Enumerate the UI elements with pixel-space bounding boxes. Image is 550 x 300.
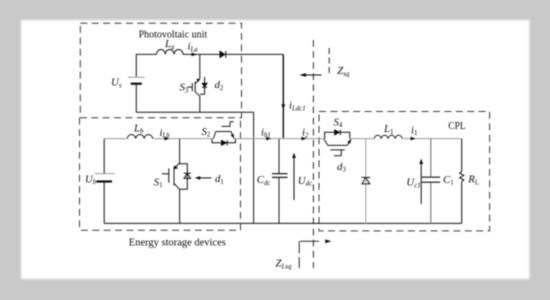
wire: output node branch [430, 139, 432, 224]
svg-text:Photovoltaic unit: Photovoltaic unit [139, 30, 208, 41]
current arrow iLb [160, 127, 171, 141]
diode d2 (antiparallel of S3) [200, 77, 207, 94]
current arrow ib1 [261, 126, 271, 140]
wire: PV negative drop to ground rail [253, 112, 255, 223]
Zsq dashed measurement line [312, 40, 314, 268]
voltage arrow Uc1 [406, 159, 423, 204]
ZLsq bracket [299, 241, 319, 268]
Zsq bracket [328, 48, 330, 75]
Zsq arrow [299, 73, 321, 77]
inductor La [157, 49, 184, 54]
S3 collector arrowhead [196, 79, 200, 83]
current arrow i1 [410, 124, 417, 140]
wire: Ub leads [103, 139, 105, 224]
transistor S3 (IGBT) [187, 54, 199, 112]
inductor L1 [374, 135, 402, 138]
voltage arrow Udc [292, 153, 312, 200]
diode d3 freewheel [362, 177, 371, 184]
wire: PV bottom rail [136, 111, 253, 113]
capacitor C1 [422, 177, 440, 182]
transistor S4 (IGBT horizontal, gate down) [324, 139, 352, 156]
diode of S2 [212, 139, 235, 146]
photovoltaic unit dashed box [80, 23, 241, 118]
wire: iLdc1 drop [282, 54, 284, 138]
S2 emitter arrowhead [231, 134, 234, 138]
wire: Us bottom lead [135, 84, 137, 113]
battery Us [128, 77, 145, 83]
d1 pointer arrow [195, 176, 212, 180]
current arrow i2 [301, 127, 309, 141]
ZLsq arrow head [325, 239, 331, 243]
S4 arrowhead [347, 139, 351, 144]
resistor RL [460, 139, 464, 224]
current arrow iLdc1 [281, 100, 305, 113]
battery Ub [94, 174, 114, 182]
inductor Lb [127, 135, 153, 139]
S1 collector arrowhead [174, 165, 178, 169]
energy storage dashed box [80, 118, 241, 231]
svg-text:CPL: CPL [448, 121, 466, 132]
current arrow iLa [188, 41, 199, 57]
white page area [21, 20, 530, 279]
transistor S1 (IGBT) [162, 139, 180, 224]
transistor S2 (IGBT horizontal) [213, 122, 234, 139]
wire: main dc bus [104, 138, 462, 140]
wire: PV top (Us top to iLdc1 corner) [136, 54, 283, 77]
diode of S4 [325, 130, 350, 139]
svg-text:Energy storage devices: Energy storage devices [129, 237, 226, 248]
CPL dashed box [319, 112, 490, 231]
diode PV output [220, 51, 226, 58]
diode d1 (antiparallel of S1) [180, 164, 191, 190]
wire: bottom rail [104, 222, 462, 224]
wire: freewheel branch [365, 139, 367, 224]
capacitor Cdc [272, 139, 288, 224]
